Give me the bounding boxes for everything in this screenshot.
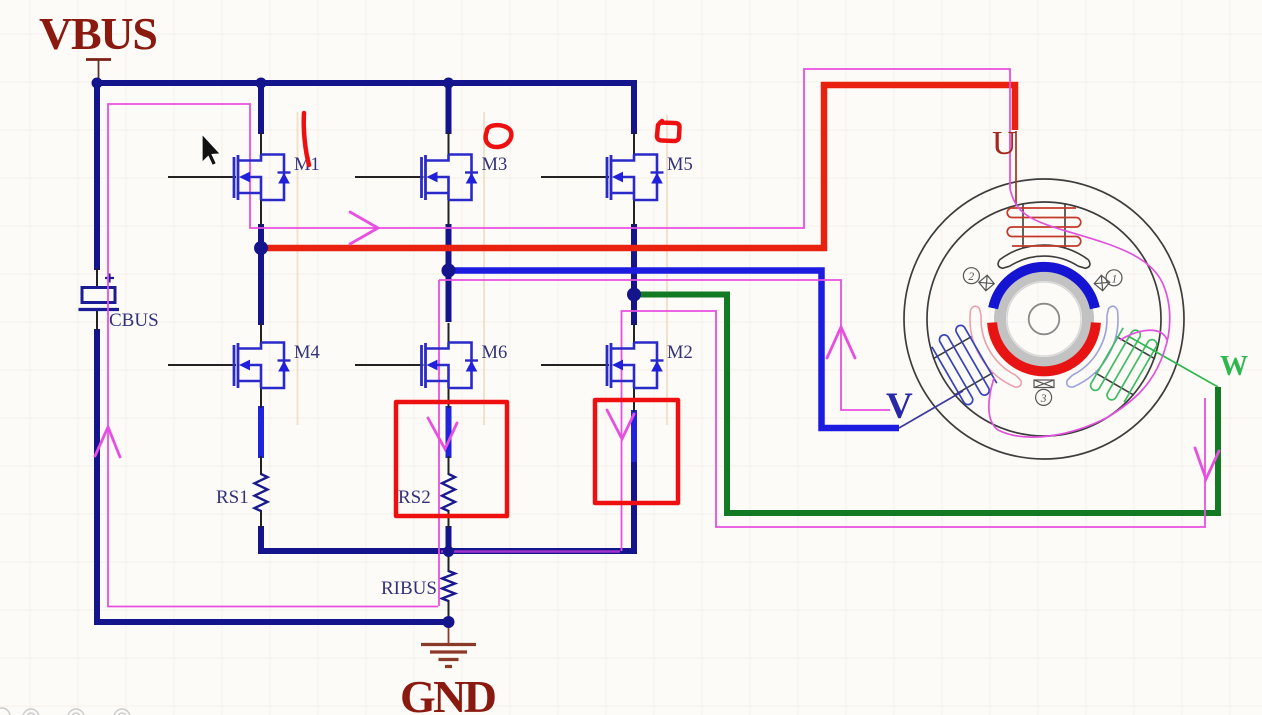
svg-text:RS2: RS2 — [398, 487, 431, 508]
svg-text:1: 1 — [1112, 273, 1118, 285]
svg-text:CBUS: CBUS — [109, 310, 159, 331]
svg-text:RS1: RS1 — [216, 487, 249, 508]
svg-text:M5: M5 — [667, 155, 693, 175]
svg-text:M2: M2 — [667, 343, 693, 363]
svg-text:V: V — [886, 386, 913, 427]
svg-text:GND: GND — [400, 671, 497, 715]
svg-text:U: U — [992, 125, 1017, 162]
svg-text:3: 3 — [1040, 393, 1047, 405]
svg-text:RIBUS: RIBUS — [381, 578, 437, 599]
svg-text:VBUS: VBUS — [39, 8, 158, 59]
svg-text:W: W — [1220, 351, 1248, 382]
svg-text:M4: M4 — [294, 343, 320, 363]
svg-text:2: 2 — [968, 271, 974, 283]
svg-text:M6: M6 — [482, 343, 508, 363]
svg-text:M3: M3 — [482, 155, 508, 175]
